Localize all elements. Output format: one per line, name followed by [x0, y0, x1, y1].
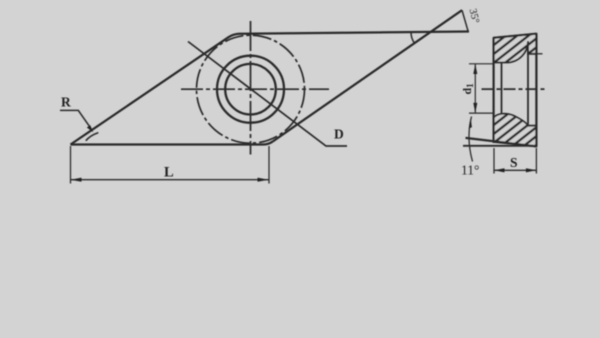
svg-text:35°: 35°: [467, 8, 481, 25]
11 deg arc arrowhead: [469, 118, 472, 129]
L left arrow: [71, 178, 82, 182]
L right arrow: [258, 178, 269, 182]
side view bottom edge (11 deg slope): [466, 138, 537, 147]
S dimension extension left: [493, 148, 495, 174]
L dimension extension line right: [268, 146, 270, 184]
d1 dimension line: [474, 64, 476, 113]
side view top hatched section: [494, 34, 537, 63]
corner radius arc at corner A: [86, 133, 99, 141]
side view top edge: [494, 34, 537, 38]
tip closing line at 35 deg corner: [462, 10, 468, 31]
svg-text:S: S: [510, 155, 518, 170]
D leader diagonal through hole: [188, 42, 347, 147]
S dimension line: [494, 169, 536, 171]
vertical center line: [250, 21, 252, 155]
L dimension line: [71, 179, 269, 181]
countersink rim line extension (top right): [536, 53, 542, 55]
S dimension extension right: [535, 148, 537, 174]
35 deg label: [467, 8, 481, 25]
11 deg dimension arc: [469, 117, 473, 162]
d1 extension line bottom: [469, 112, 494, 114]
d1 bottom arrow: [473, 103, 477, 113]
S left arrow: [494, 168, 505, 172]
d1 extension line top: [469, 63, 494, 65]
svg-text:R: R: [61, 95, 71, 110]
side view bottom hatched section: [494, 114, 537, 147]
S right arrow: [526, 168, 537, 172]
countersink circle: [217, 56, 284, 123]
insert body outline: right edge to sharp tip: [273, 10, 462, 141]
side view right face: [535, 34, 537, 147]
horizontal reference line for 11 deg: [463, 145, 536, 147]
side view horizontal center line: [482, 88, 546, 90]
L dimension extension line left: [70, 146, 72, 184]
R leader underline: [60, 110, 91, 128]
R leader arrowhead: [87, 125, 93, 132]
35 deg angle arc: [411, 32, 414, 43]
insert body outline: bottom edge: [71, 141, 273, 144]
insert body outline: left edge and top edge with rounded obtuse corner: [71, 32, 470, 145]
d1 top arrow: [473, 64, 477, 74]
svg-text:D: D: [334, 127, 344, 142]
svg-text:11°: 11°: [461, 163, 479, 178]
bore circle: [225, 64, 276, 115]
inscribed circle (dash-dot): [197, 35, 305, 143]
svg-text:d1: d1: [460, 83, 475, 95]
svg-text:L: L: [164, 165, 174, 181]
side view left face: [493, 38, 495, 143]
right countersink rim vertical: [527, 41, 529, 126]
horizontal center line: [181, 88, 329, 90]
d1 label (rotated): [460, 83, 475, 95]
left countersink rim vertical: [501, 63, 503, 114]
